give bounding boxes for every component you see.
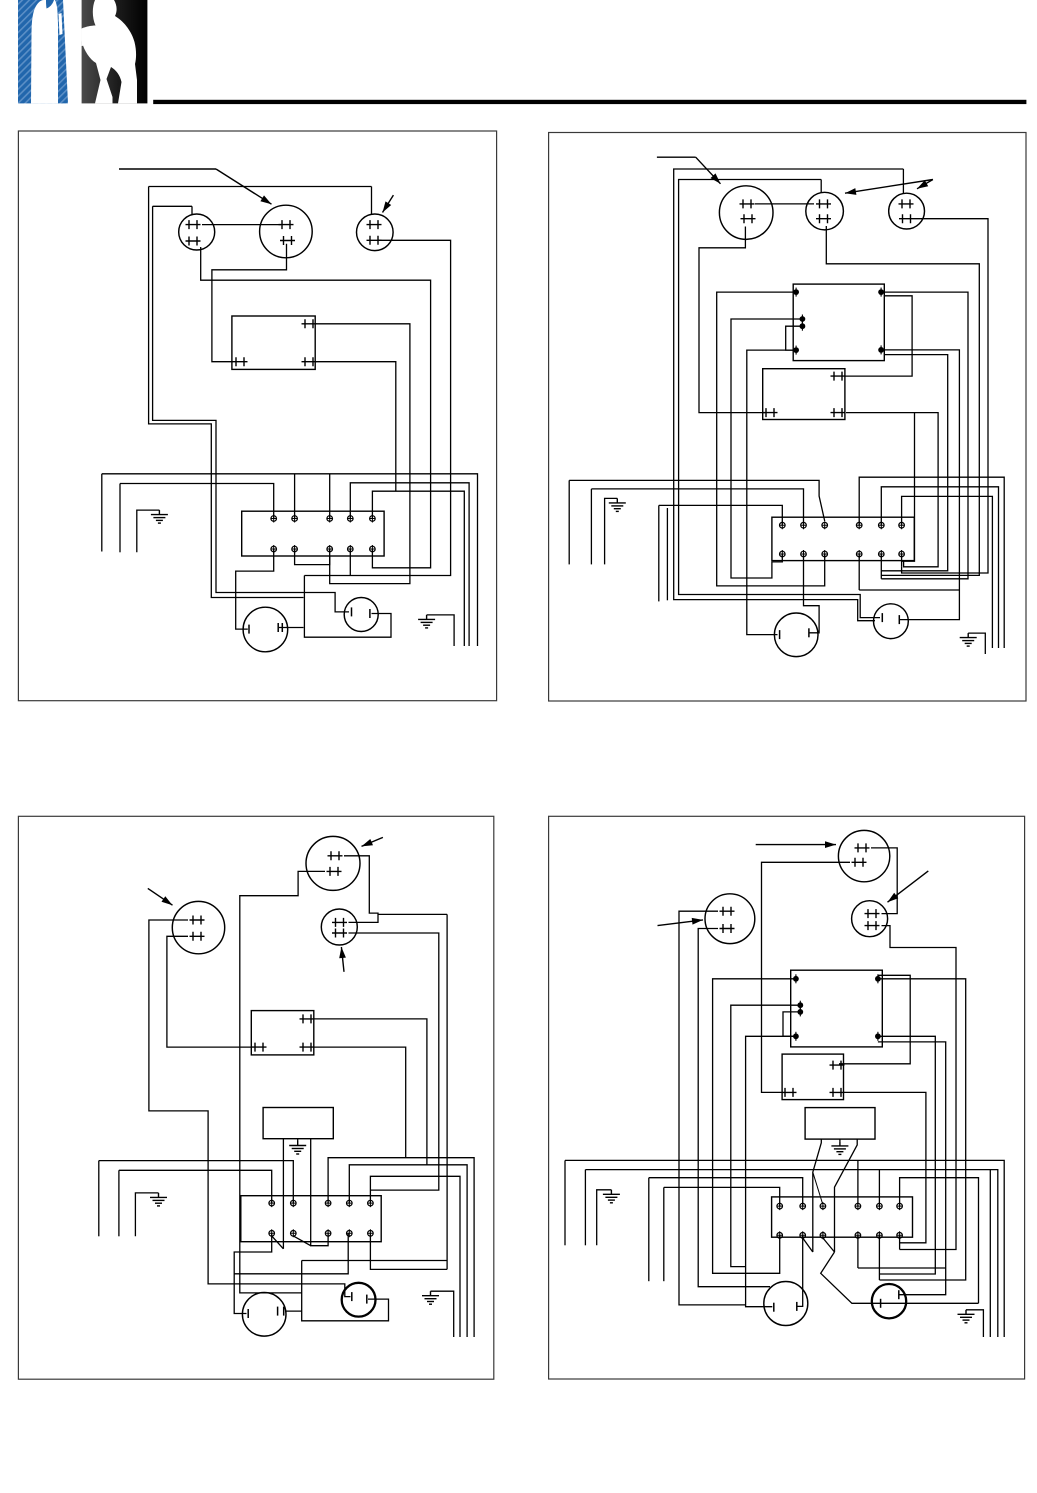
header rule [153, 100, 1026, 104]
terminal b5 TB3 [368, 1229, 374, 1237]
terminal t3 TB3 [325, 1199, 331, 1207]
ground G1 [151, 510, 168, 523]
wire terminal b6 stub [901, 554, 903, 567]
wire T2 right lead [835, 1139, 858, 1252]
wire dangling lead L9 [663, 1187, 665, 1281]
wire feed terminal t2 TB2 [591, 489, 803, 525]
wire K2 BR second to b5 [881, 355, 947, 571]
terminal b2 TB4 [800, 1231, 806, 1239]
terminal t6 TB2 [899, 521, 905, 529]
logo staff pole [58, 0, 69, 103]
arrow to receptacle P11 [888, 871, 929, 902]
logo bending person silhouette [82, 0, 137, 103]
wire terminal t4 line TB3 [349, 1165, 467, 1337]
terminal t1 TB4 [777, 1202, 783, 1210]
wire K3 BR to terminal b6 [846, 413, 938, 567]
wire K4 BR to t3 line [314, 1047, 406, 1158]
ground G4 [960, 633, 977, 646]
wire K5 BR to motor M8 right pin [878, 1042, 946, 1295]
pin M1 right a [277, 623, 279, 632]
relay K3 [763, 369, 845, 420]
terminal strip TB4 [772, 1197, 913, 1237]
relay K4 [251, 1011, 313, 1055]
wire feed terminal t2 TB4 [649, 1178, 803, 1206]
receptacle P2 [260, 205, 313, 258]
wire P7 upper to motor M6 left pin [149, 920, 351, 1297]
terminal b2 TB3 [291, 1229, 297, 1237]
wire K5 mid-a lead [731, 1005, 801, 1266]
wire terminal b4 stub [858, 554, 860, 590]
wire terminal t5 line TB3 [370, 1176, 460, 1337]
relay K5 terminal TL [793, 974, 799, 983]
arrow to receptacle P6 [917, 180, 933, 189]
relay K1 pin bottom-right [302, 357, 317, 366]
relay K5 terminal mid-b [797, 1007, 803, 1016]
relay K2 terminal BL [793, 346, 799, 355]
pin M3 right [808, 628, 810, 637]
wire P9 net to right bus [378, 913, 447, 915]
relay K3 pin top-right [831, 372, 846, 381]
terminal t4 TB4 [855, 1202, 861, 1210]
motor M2 [344, 598, 378, 632]
relay K5 terminal mid-a [797, 1001, 803, 1010]
wire jumper b2 b3 [295, 549, 330, 565]
wire P1 lower pin to terminal b5 [201, 247, 431, 568]
wire terminal t5 stub TB4 [878, 1170, 880, 1207]
wire P5 lower to terminal b5 [826, 226, 979, 575]
wire P2 lower pin to relay K1 [212, 244, 287, 362]
relay K6 [782, 1054, 843, 1100]
wire P6 lower to terminal b6 [902, 219, 988, 573]
wire feed terminal t1 TB4 [664, 1187, 780, 1206]
terminal strip TB3 [241, 1196, 381, 1242]
terminal b2 TB2 [801, 550, 807, 558]
pin slots P10 lower [852, 858, 867, 867]
wire top feeder [149, 186, 372, 188]
terminal strip TB1 [242, 511, 384, 556]
wire terminal b1 to motor M5 left pin [234, 1233, 272, 1313]
relay K3 pin bottom-right [831, 408, 846, 417]
pin slots P4 lower [741, 214, 756, 223]
wire staircase B1 [149, 187, 304, 598]
motor M8 [872, 1284, 906, 1318]
pin slots P5 lower [816, 214, 831, 223]
wire dangling lead L1 [101, 474, 103, 552]
terminal t3 TB4 [820, 1202, 826, 1210]
wire P11 lower to terminal b6 [882, 926, 957, 1250]
relay K3 pin bottom-left [763, 408, 778, 417]
wire to ground G1 [137, 510, 160, 552]
wire terminal t5 line TB2 [881, 487, 998, 648]
diagram frame box2 [549, 133, 1026, 702]
relay K1 pin bottom-left [233, 357, 248, 366]
relay K5 [791, 970, 883, 1047]
transformer T2 [805, 1108, 875, 1140]
wire terminal t2 stub [294, 474, 296, 519]
terminal t5 TB2 [879, 521, 885, 529]
wire P8 upper to P9 upper [344, 856, 378, 923]
pin slots P5 upper [816, 199, 831, 208]
wire terminal t3 stub [329, 474, 331, 519]
relay K6 pin bottom-left [782, 1088, 797, 1097]
wire T1 left lead [282, 1139, 284, 1249]
wire M1 right pin [279, 627, 304, 629]
receptacle P1 [179, 214, 215, 250]
pin M7 right [796, 1302, 798, 1311]
receptacle P5 [806, 192, 844, 230]
splice slash b1 [272, 1236, 284, 1249]
arrow to receptacle P5 [845, 180, 933, 195]
relay K5 terminal TR [875, 974, 881, 983]
pin slots P7 lower [190, 932, 205, 941]
pin M5 right a [277, 1307, 279, 1316]
wire terminal b5 to right bus [370, 1233, 447, 1269]
wire drop to P3 [371, 187, 373, 215]
wire terminal t4 stub TB4 [857, 1160, 859, 1206]
wire drop to P5 [820, 180, 822, 193]
wire terminal t6 line TB2 [902, 496, 993, 648]
wire staircase B2 to motor M2 left pin [153, 206, 349, 612]
ground G6 [150, 1193, 167, 1206]
splice slash b2 [293, 1236, 310, 1246]
logo staff highlight [59, 13, 63, 35]
wire terminal b5 stub TB4 [878, 1235, 880, 1280]
pin M2 left [351, 607, 353, 616]
wire K2 TR to terminal b5 [881, 292, 968, 579]
relay K1 [232, 316, 315, 369]
terminal t1 TB1 [271, 515, 277, 523]
wire P12 lower long drop [698, 929, 770, 1287]
wire P1 to P2 [202, 224, 281, 226]
wire b4 to K5 BR net [858, 1267, 946, 1269]
wire tap to terminal t3 [813, 1172, 823, 1203]
wire terminal t5 line [372, 491, 464, 646]
terminal t5 TB1 [370, 515, 376, 523]
pin M5 left [247, 1309, 249, 1318]
wire terminal b1 to motor M1 [236, 549, 274, 629]
pin slots P1 upper [186, 220, 201, 229]
wire to ground G9 [597, 1190, 612, 1246]
wire dangling lead L6 [568, 480, 570, 564]
transformer T1 [263, 1108, 333, 1139]
wire diagonal to motor M8 left pin [821, 1252, 979, 1303]
wire T1 ground stem [297, 1139, 299, 1141]
pin slots P9 upper [332, 918, 347, 927]
ground G5 [289, 1141, 306, 1154]
wire b4 to K2 BR net [859, 589, 959, 591]
wire P12 upper long drop [679, 911, 746, 1305]
terminal t3 TB1 [327, 515, 333, 523]
wire to ground G3 [605, 498, 618, 564]
wire P7 lower to relay K4 BL [167, 936, 252, 1047]
splice slash b3 TB4 [823, 1238, 835, 1252]
relay K2 terminal TR [878, 288, 884, 297]
wire to ground G4 [968, 633, 985, 654]
pin M3 left [779, 630, 781, 639]
pin M5 right b [283, 1307, 285, 1316]
wire relay K1 TR to terminal b3 [316, 324, 410, 584]
wire dangling lead L2 [119, 484, 121, 553]
wire to ground G2 [427, 615, 455, 646]
wire drop to P6 [902, 169, 904, 193]
wire t2 t3 bus [102, 474, 478, 646]
logo arm detail [82, 26, 100, 46]
arrow to receptacle P7 [148, 888, 173, 905]
terminal t2 TB4 [800, 1202, 806, 1210]
wire to P1 top [153, 205, 192, 207]
wire U loop to motor M6 right pin [302, 1261, 389, 1321]
motor M3 [774, 613, 818, 657]
pin slots P8 upper [328, 851, 343, 860]
wire K2 mid-a to terminal b1 [731, 319, 800, 578]
receptacle P12 [705, 894, 755, 944]
pin slots P7 upper [190, 916, 205, 925]
pin M8 left [880, 1299, 882, 1308]
wire K5 TR to relay K6 TR [839, 975, 910, 1064]
pin M6 left [351, 1292, 353, 1301]
receptacle P7 [172, 901, 224, 953]
terminal b1 TB4 [777, 1231, 783, 1239]
wire P9 lower to t5 stub [349, 933, 439, 1190]
arrow to receptacle P10 [790, 841, 836, 848]
pin slots P3 lower [367, 236, 382, 245]
pin slots P3 upper [367, 220, 382, 229]
wire U loop top to right bus [302, 1260, 447, 1262]
motor M1 [243, 607, 288, 652]
ground G3 [609, 498, 626, 511]
terminal b5 TB1 [370, 545, 376, 553]
splice slash b2 TB4 [803, 1238, 813, 1252]
pin M4 left [881, 613, 883, 622]
relay K4 pin bottom-left [252, 1043, 267, 1052]
wire terminal t4 line [350, 483, 469, 646]
wire terminal t3 line TB3 [328, 1158, 474, 1337]
wire feeder B to motor M4 left pin [679, 180, 880, 618]
terminal b1 TB2 [780, 550, 786, 558]
relay K2 terminal BR [878, 345, 884, 354]
receptacle P11 [852, 901, 888, 937]
wire P10 lower to relay K6 BL [762, 862, 851, 1092]
relay K2 terminal mid-a [800, 315, 806, 324]
wire terminal b4 tap [349, 549, 351, 576]
ground G7 [422, 1291, 439, 1304]
terminal b6 TB2 [899, 550, 905, 558]
wire terminal t6 riser to diagonal net [900, 1178, 979, 1304]
wire P8 lower long staircase [240, 871, 325, 1293]
wire to ground G10 [966, 1310, 983, 1337]
wire bracket mid-b to BL [786, 326, 803, 350]
logo black panel [82, 0, 148, 103]
relay K1 pin top-right [302, 319, 317, 328]
logo blue panel with diagonal stripes [18, 0, 63, 103]
wire T2 ground stem [839, 1139, 841, 1141]
diagram frame box4 [549, 816, 1025, 1379]
wire K4 TR to t4 line [314, 1019, 427, 1165]
pin slots P11 lower [865, 921, 880, 930]
pin slots P12 upper [720, 907, 735, 916]
receptacle P4 [719, 186, 773, 240]
relay K4 pin bottom-right [300, 1043, 315, 1052]
pin slots P4 upper [740, 199, 755, 208]
pin M1 right b [281, 623, 283, 632]
wire feeder A to motor M4 left [674, 169, 904, 621]
wire dangling lead L5 [590, 489, 592, 565]
wire dangling lead L8 [98, 1161, 100, 1237]
wire terminal b2 to motor M3 right pin [804, 554, 820, 633]
wire terminal t4 line TB2 [859, 477, 1004, 648]
terminal b4 TB1 [348, 545, 354, 553]
wire terminal b5 stub [880, 554, 882, 579]
terminal t2 TB3 [291, 1199, 297, 1207]
wire K2 BL to motor M3 left pin [747, 350, 796, 634]
wire K2 TL to terminal b3 [717, 292, 825, 586]
motor M4 [874, 604, 909, 639]
wire dangling lead L7 [118, 1170, 120, 1236]
terminal b5 TB4 [877, 1231, 883, 1239]
logo standing person silhouette [31, 0, 58, 103]
terminal b1 TB3 [269, 1229, 275, 1237]
wire terminal b6 stub TB4 [899, 1235, 901, 1249]
pin slots P11 upper [865, 909, 880, 918]
wire P4 to P5 [755, 203, 814, 205]
wire T2 left lead [813, 1139, 822, 1252]
relay K5 terminal BL [793, 1032, 799, 1041]
relay K2 terminal mid-b [800, 322, 806, 331]
terminal t4 TB1 [348, 515, 354, 523]
wire K3 BR branch to b6 [902, 413, 915, 562]
terminal strip TB2 [772, 517, 914, 560]
terminal b3 TB4 [820, 1231, 826, 1239]
wire terminal t5 line TB4 [585, 1170, 997, 1337]
arrow to receptacle P12 [658, 918, 704, 926]
wire dangling lead L4 [666, 508, 668, 600]
wire feed terminal t2 TB3 [99, 1161, 293, 1204]
ground G8 [831, 1141, 848, 1154]
terminal t2 TB1 [292, 515, 298, 523]
wire bracket mid-b to BL K5 [783, 1012, 800, 1036]
wire to ground G6 [135, 1193, 158, 1236]
leader arrow to receptacle P2 [119, 168, 216, 170]
terminal b2 TB1 [292, 545, 298, 553]
wire K5 BR to b5 second [878, 1036, 935, 1274]
terminal t5 TB3 [368, 1199, 374, 1207]
relay K4 pin top-right [300, 1014, 315, 1023]
ground G2 [418, 615, 435, 628]
wire P3 lower pin bus [304, 240, 450, 575]
relay K2 terminal TL [793, 288, 799, 297]
terminal t4 TB3 [347, 1199, 353, 1207]
pin M8 right [898, 1290, 900, 1299]
arrow to receptacle P4 [696, 157, 721, 184]
receptacle P10 [838, 830, 889, 881]
terminal b5 TB2 [879, 550, 885, 558]
wire feed terminal t3 TB2 [569, 480, 825, 521]
arrow to receptacle P8 [362, 837, 383, 846]
pin M4 right [898, 615, 900, 624]
leader line to receptacle P10 [756, 844, 790, 846]
terminal b3 TB2 [822, 550, 828, 558]
wire T1 right lead to b3 [311, 1139, 328, 1246]
terminal b3 TB1 [327, 545, 333, 553]
pin slots P10 upper [855, 843, 870, 852]
wire right bus drop [446, 914, 448, 1269]
pin slots P6 upper [899, 199, 914, 208]
arrow at receptacle P3 [383, 195, 394, 212]
wire dangling lead L12 [584, 1170, 586, 1246]
wire P10 upper to P11 upper [871, 848, 897, 914]
pin slots P2 upper [279, 220, 294, 229]
pin slots P12 lower [720, 924, 735, 933]
wire dangling lead L10 [648, 1178, 650, 1282]
wire terminal b4 stub TB4 [857, 1235, 859, 1268]
pin slots P8 lower [327, 867, 342, 876]
terminal b4 TB3 [347, 1229, 353, 1237]
pin slots P6 lower [899, 214, 914, 223]
terminal b3 TB3 [325, 1229, 331, 1237]
wire K6 BR to terminal b6 [844, 1092, 926, 1242]
wire K2 TR to relay K3 TR [845, 296, 912, 376]
wire U loop to motor M2 right pin [304, 576, 391, 638]
terminal t6 TB4 [897, 1202, 903, 1210]
receptacle P3 [357, 214, 394, 251]
arrow to receptacle P9 [339, 947, 346, 972]
terminal b1 TB1 [271, 545, 277, 553]
wire K5 TL to terminal b1 [713, 979, 796, 1274]
terminal b6 TB4 [897, 1231, 903, 1239]
wire to ground G7 [431, 1291, 454, 1337]
terminal t5 TB4 [877, 1202, 883, 1210]
motor M6 [342, 1283, 376, 1317]
receptacle P9 [321, 909, 357, 945]
diagram frame box1 [18, 131, 496, 701]
wire K5 TR to terminal b5 [878, 979, 966, 1280]
motor M5 [242, 1293, 286, 1337]
wire feed terminal t1 TB2 [659, 505, 783, 525]
pin slots P2 lower [280, 236, 295, 245]
wire drop to P1 [191, 206, 193, 214]
relay K6 pin top-right [830, 1061, 845, 1070]
wire M5 right pin tap [285, 1310, 302, 1312]
wire terminal t4 line TB4 [565, 1160, 1004, 1337]
terminal t4 TB2 [856, 521, 862, 529]
diagram frame box3 [18, 816, 493, 1379]
wire dangling lead L11 [564, 1160, 566, 1245]
relay K6 pin bottom-right [830, 1088, 845, 1097]
wire right dangling lead L13 [989, 1170, 991, 1337]
wire K2 BR to motor M4 right pin [881, 350, 959, 620]
ground G9 [603, 1190, 620, 1203]
terminal b4 TB4 [855, 1231, 861, 1239]
wire dangling lead L3 [658, 505, 660, 601]
pin M2 right [369, 609, 371, 618]
terminal t1 TB3 [269, 1199, 275, 1207]
terminal t3 TB2 [822, 521, 828, 529]
pin M7 left [773, 1303, 775, 1312]
ground G10 [958, 1310, 975, 1323]
wire K5 BL to motor M7 left pin [746, 1036, 796, 1306]
wire terminal b4 tap [234, 1233, 348, 1274]
wire P4 lower to relay K3 BL [699, 227, 765, 413]
terminal t1 TB2 [780, 521, 786, 529]
wire terminal b2 to motor M7 right pin [798, 1235, 803, 1306]
pin M6 right [366, 1295, 368, 1304]
wire relay K1 BR to t5 line [316, 362, 396, 492]
relay K2 [793, 284, 884, 361]
pin slots P1 lower [186, 237, 201, 246]
receptacle P8 [306, 836, 360, 890]
terminal b4 TB2 [856, 550, 862, 558]
relay K5 terminal BR [875, 1032, 881, 1041]
